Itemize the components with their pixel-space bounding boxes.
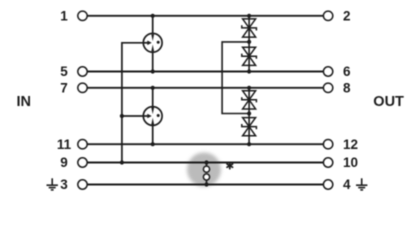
node GDT2 electrode bus [120, 114, 124, 118]
node spark gap top [204, 160, 208, 164]
svg-text:8: 8 [343, 81, 351, 96]
terminal 3 [78, 180, 87, 189]
wire TVS midpoint bus [222, 42, 249, 114]
wire GDT column vertical segments [152, 16, 154, 144]
wire line 11-12 [87, 143, 323, 145]
gas discharge tube GDT1 [143, 33, 162, 52]
svg-text:6: 6 [343, 64, 351, 79]
terminal 1 [78, 11, 87, 20]
node line9/bus [120, 160, 124, 164]
svg-text:OUT: OUT [373, 94, 404, 110]
node line5/GDT [151, 69, 155, 73]
terminal 5 [78, 67, 87, 76]
svg-text:IN: IN [17, 94, 32, 110]
suppressor diode D1 [242, 19, 257, 37]
terminal 10 [323, 158, 332, 167]
terminal 12 [323, 140, 332, 149]
terminal 4 [323, 180, 332, 189]
node line7/TVS [247, 86, 251, 90]
wire line 7-8 [87, 87, 323, 89]
node line11/GDT [151, 142, 155, 146]
svg-text:10: 10 [343, 155, 358, 170]
wire line 1-2 [87, 15, 323, 17]
spark gap FS (electrodes) [203, 163, 209, 185]
suppressor diode D4 [242, 118, 257, 136]
svg-text:9: 9 [60, 155, 68, 170]
svg-text:12: 12 [343, 137, 358, 152]
svg-text:4: 4 [343, 177, 351, 192]
terminal 2 [323, 11, 332, 20]
node TVS midpoint bottom [247, 111, 251, 115]
terminal 8 [323, 83, 332, 92]
wire line 5-6 [87, 71, 323, 73]
terminal 11 [78, 140, 87, 149]
svg-text:2: 2 [343, 9, 351, 24]
node line5/TVS [247, 69, 251, 73]
ground symbol left (terminal 3) [47, 178, 58, 190]
suppressor diode D3 [242, 91, 257, 109]
node line1/GDT [151, 14, 155, 18]
spark gap highlight (gray circle) [187, 153, 221, 187]
svg-text:7: 7 [60, 81, 68, 96]
wire TVS chain vertical (top) [248, 16, 250, 72]
svg-text:1: 1 [60, 9, 68, 24]
terminal 9 [78, 158, 87, 167]
terminal 7 [78, 83, 87, 92]
wire line 3-4 [87, 184, 323, 186]
node spark gap bottom [204, 182, 208, 186]
svg-text:11: 11 [57, 137, 72, 152]
node TVS midpoint top [247, 40, 251, 44]
wire GDT center-electrode bus [122, 43, 144, 163]
asterisk marker [227, 163, 233, 169]
suppressor diode D2 [242, 47, 257, 65]
gas discharge tube GDT2 [143, 107, 162, 126]
wire TVS chain vertical (bottom) [248, 88, 250, 144]
wire line 9-10 [87, 162, 323, 164]
svg-text:3: 3 [60, 177, 68, 192]
terminal 6 [323, 67, 332, 76]
node line7/GDT [151, 86, 155, 90]
node line1/TVS [247, 14, 251, 18]
svg-text:5: 5 [60, 64, 68, 79]
node line11/TVS [247, 142, 251, 146]
ground symbol right (terminal 4) [356, 178, 367, 190]
